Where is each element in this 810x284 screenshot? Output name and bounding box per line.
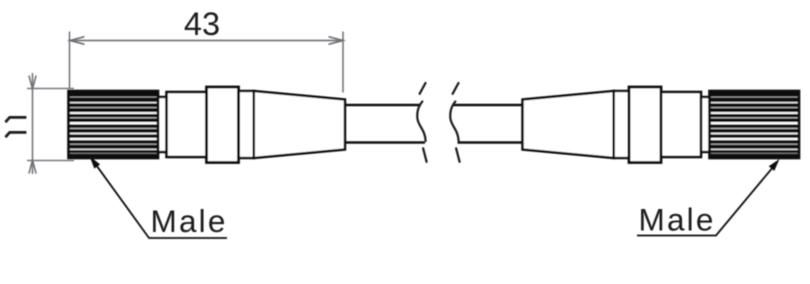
break line left: [417, 83, 426, 162]
knurled coupling nut (left): [69, 91, 159, 158]
svg-text:Male: Male: [151, 203, 228, 239]
neck between knurl and cylinder: [156, 97, 170, 152]
dimension arrow 11 bottom: [29, 160, 36, 174]
extension line left (x=69.5): [69, 32, 71, 90]
dimension arrow 11 top: [29, 76, 36, 90]
collar ring (right): [629, 87, 661, 163]
dimension arrow right: [329, 37, 344, 45]
leader line right: [637, 162, 777, 235]
cable top line left segment: [345, 104, 421, 106]
leader arrowhead left: [90, 156, 101, 169]
cylinder body (right): [660, 92, 702, 157]
leader line left: [92, 159, 227, 238]
small band before taper (right): [614, 91, 630, 158]
extension line bottom (y=160.5): [27, 160, 74, 162]
dimension arrow left: [70, 37, 85, 45]
dimension text 11 (rotated): [5, 117, 26, 137]
dimension line 43: [70, 40, 343, 42]
strain-relief taper (right): [523, 91, 614, 158]
extension line top (y=88.5): [27, 88, 74, 90]
strain-relief taper: [254, 91, 345, 158]
dimension line 11 vertical: [32, 73, 34, 174]
cylinder body: [167, 92, 209, 157]
break line right: [450, 83, 459, 162]
cable top line right segment: [454, 104, 523, 106]
leader arrowhead right: [769, 159, 780, 171]
svg-text:43: 43: [184, 6, 220, 42]
neck between knurl and cylinder (right): [698, 97, 712, 152]
cable bottom line left segment: [345, 141, 425, 143]
svg-text:Male: Male: [639, 202, 716, 238]
collar ring: [207, 87, 239, 163]
cable bottom line right segment: [458, 141, 523, 143]
extension line right (x=343): [342, 32, 344, 93]
knurled coupling nut (right): [710, 91, 800, 158]
small band before taper: [239, 91, 255, 158]
